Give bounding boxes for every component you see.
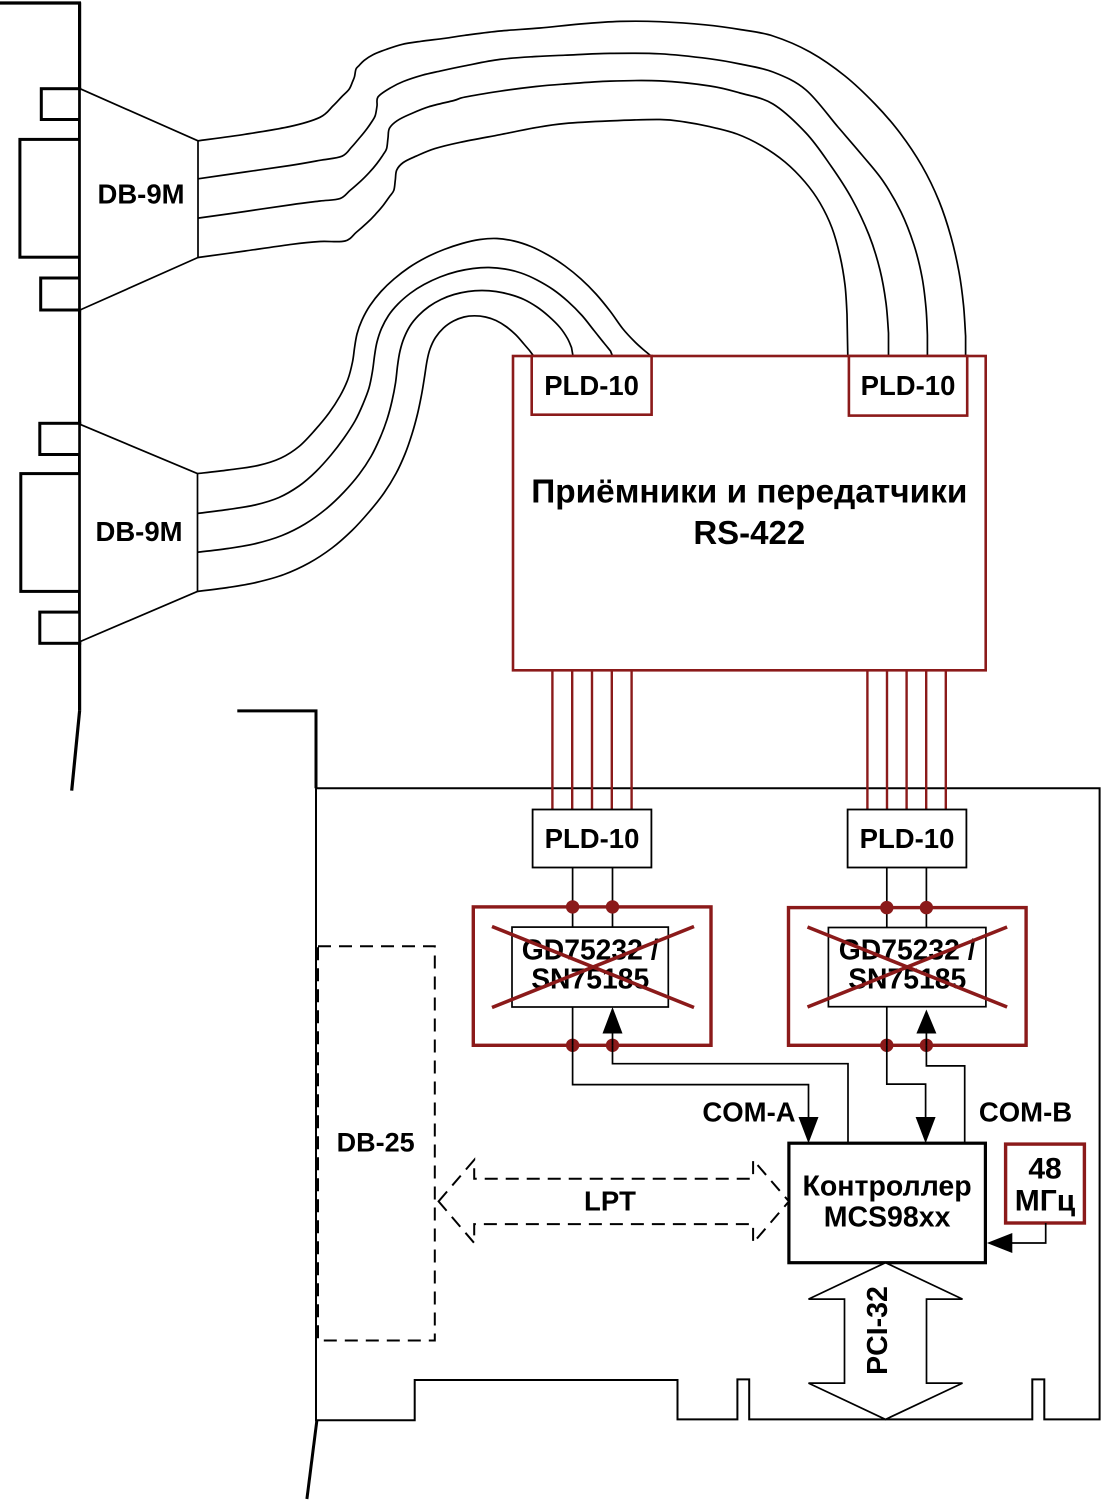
svg-text:DB-9M: DB-9M [95,516,182,547]
wire module-to-card right #1 [866,670,868,809]
wire A3 (X1 ribbon) [198,80,889,356]
card left edge upper part [315,711,317,788]
IC U1 GD75232/SN75185 body [512,927,668,1007]
card shoulder segment [237,711,316,788]
connector DB-9M X2 trapezoid [80,424,198,641]
svg-text:MCS98xx: MCS98xx [824,1202,951,1234]
svg-text:COM-B: COM-B [979,1097,1072,1128]
bracket top lid [0,1,81,4]
connector PLD-10 (card, left) [533,810,652,868]
svg-text:PLD-10: PLD-10 [544,370,639,401]
wire module-to-card left #4 [611,670,613,809]
PCI card outline [316,788,1100,1420]
svg-text:DB-9M: DB-9M [97,179,184,210]
wire U1 vertical from box bottom to dot (left) [572,1007,574,1045]
bypass frame U2 (dark red) [789,908,1027,1046]
connector DB-9M X1 mounting tab upper [41,89,79,120]
wire module-to-card left #1 [551,670,553,809]
cross-out X over U1 [492,927,694,1008]
wire PLD-10 right pin1 down [886,868,888,928]
connector PLD-10 (card, right) [848,810,967,868]
connector PLD-10 (module, right) [849,356,967,416]
svg-text:LPT: LPT [584,1186,636,1217]
wire module-to-card right #5 [945,670,947,809]
svg-text:МГц: МГц [1015,1185,1076,1218]
svg-text:RS-422: RS-422 [693,514,805,551]
wire B3 (X2 ribbon) [198,291,574,553]
card bottom tail [307,1420,317,1499]
IC U2 GD75232/SN75185 body [828,928,986,1007]
svg-text:COM-A: COM-A [702,1097,795,1128]
arrow up into U1 [612,1030,614,1045]
svg-text:PCI-32: PCI-32 [862,1286,894,1375]
cross-out X over U2 [808,927,1008,1007]
wire A1 (X1 ribbon) [198,21,966,356]
connector DB-9M X2 shell body [21,474,80,592]
connector DB-9M X1 trapezoid [80,89,198,310]
wire B1 (X2 ribbon) [198,238,652,473]
junction dots U1 [566,900,579,913]
wire module-to-card left #3 [591,670,593,809]
connector DB-9M X1 mounting tab lower [41,278,80,310]
connector PLD-10 (module, left) [532,356,652,415]
bypass frame U1 (dark red) [473,907,711,1045]
wire PLD-10 left pin1 down [572,868,574,928]
wire module-to-card right #3 [905,670,907,809]
bracket tail [72,711,80,791]
wire U2 RX out: dot -> controller COM-B (arrow) [887,1045,926,1120]
controller U3 MCS98xx box [789,1143,986,1263]
wire U2 vertical from box bottom to dot (left) [886,1007,888,1046]
wire module-to-card right #4 [925,670,927,809]
connector DB-9M X2 mounting tab lower [40,612,80,643]
wire module-to-card left #5 [630,670,632,809]
connector DB-9M X1 shell body [20,139,80,257]
bus PCI-32 double arrow [809,1263,963,1420]
connector DB-9M X2 mounting tab upper [40,423,80,454]
svg-text:DB-25: DB-25 [337,1128,415,1158]
bracket face line [78,2,81,711]
wire oscillator -> controller (arrow left) [1010,1223,1046,1243]
svg-text:PLD-10: PLD-10 [545,823,640,854]
wire PLD-10 left pin2 down [612,868,614,928]
bus LPT double arrow (dashed) [439,1160,789,1243]
svg-text:PLD-10: PLD-10 [861,370,956,401]
wire U2 TX in: controller -> dot [926,1045,964,1143]
wire U1 TX in: controller -> dot [613,1045,849,1143]
wire B2 (X2 ribbon) [198,267,613,513]
svg-text:PLD-10: PLD-10 [860,823,955,854]
svg-text:Приёмники и передатчики: Приёмники и передатчики [531,474,967,511]
wire A4 (X1 ribbon) [198,119,848,356]
wire A2 (X1 ribbon) [198,53,927,356]
svg-text:48: 48 [1028,1153,1061,1186]
arrow up into U2 [925,1030,927,1045]
wire module-to-card right #2 [886,670,888,809]
wire PLD-10 right pin2 down [925,868,927,928]
wire B4 (X2 ribbon) [198,316,534,592]
junction dots U2 [880,901,893,914]
wire U1 RX out: dot -> controller COM-A (arrow) [573,1045,809,1120]
svg-text:Контроллер: Контроллер [803,1171,972,1203]
oscillator 48 MHz box [1006,1144,1085,1223]
module box: receivers and transmitters RS-422 [513,356,986,670]
connector DB-25 (dashed outline) [318,946,435,1340]
wire module-to-card left #2 [571,670,573,809]
